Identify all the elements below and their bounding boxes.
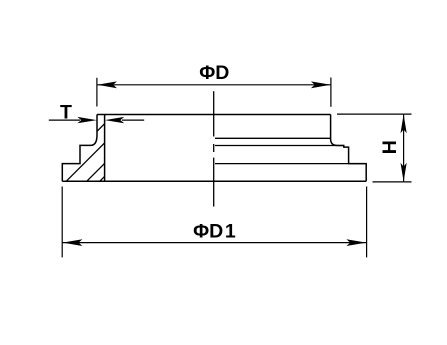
dimension H xyxy=(337,114,412,182)
svg-text:H: H xyxy=(379,140,401,154)
hatch line 3 xyxy=(87,163,105,181)
left section bore edge xyxy=(104,115,106,182)
right silhouette profile xyxy=(331,115,367,182)
svg-text:ΦD 1: ΦD 1 xyxy=(193,220,236,242)
left section profile xyxy=(62,115,97,182)
arrow PhiD left xyxy=(97,81,117,88)
bore line lower / base top edge xyxy=(215,163,366,165)
arrow T right xyxy=(105,117,124,123)
arrow PhiD1 left xyxy=(63,239,83,246)
arrow PhiD1 right xyxy=(346,239,366,246)
arrow T left xyxy=(77,117,96,123)
dimension PhiD1 xyxy=(62,187,366,258)
flange bottom edge xyxy=(62,180,366,182)
bore line middle xyxy=(215,145,344,147)
arrow PhiD right xyxy=(311,81,331,88)
flange top edge xyxy=(97,114,331,116)
dimension PhiD xyxy=(97,78,331,107)
dimension T xyxy=(49,119,144,121)
centerline xyxy=(213,91,215,206)
svg-text:T: T xyxy=(60,102,72,124)
hatch line 1 xyxy=(97,124,105,132)
svg-text:ΦD: ΦD xyxy=(199,62,229,84)
hatch line 2 xyxy=(66,143,104,181)
bore line upper xyxy=(215,137,331,139)
arrow H up xyxy=(401,114,407,133)
hatch line 4 xyxy=(100,176,105,181)
arrow H down xyxy=(401,163,407,182)
